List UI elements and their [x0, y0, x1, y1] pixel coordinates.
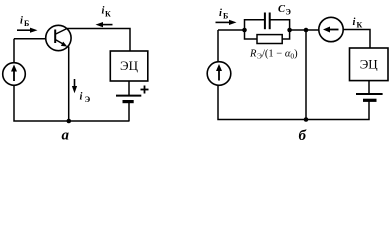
node: right node dot (circuit b) — [287, 28, 292, 33]
wire: left rail and bottom wire (circuit b) — [218, 30, 369, 120]
label i_E with arrow (circuit a) — [72, 79, 91, 104]
svg-text:Б: Б — [223, 11, 228, 20]
svg-text:а: а — [62, 128, 70, 143]
transistor VT1 — [46, 25, 71, 50]
current source I2 (circle with up arrow) — [207, 62, 231, 86]
svg-text:К: К — [357, 20, 363, 29]
svg-text:Б: Б — [24, 19, 29, 28]
box ETs (electronic circuit) circuit a — [110, 51, 148, 81]
svg-text:Э: Э — [286, 8, 292, 17]
node: left node dot (circuit b) — [242, 28, 247, 33]
label i_B with arrow (circuit a) — [17, 16, 38, 33]
label C_E — [278, 4, 292, 17]
label + (battery polarity, circuit a) — [141, 86, 149, 94]
label R_E/(1-alpha0) — [249, 49, 298, 61]
capacitor C_E plates — [265, 13, 270, 30]
wire: middle vertical (circuit b) — [305, 30, 307, 120]
svg-text:б: б — [299, 128, 307, 142]
svg-text:i: i — [20, 16, 23, 27]
svg-text:ЭЦ: ЭЦ — [360, 56, 379, 71]
wire: emitter lead down (circuit a) — [68, 47, 70, 122]
wire: left rail and bottom wire (circuit a) — [14, 39, 130, 121]
wire: collector top wire (circuit a) — [66, 29, 130, 52]
svg-text:i: i — [353, 17, 356, 28]
label i_B with arrow (circuit b) — [216, 8, 237, 25]
node: middle junction dot top — [304, 28, 309, 33]
current source i_K (circle with left arrow) — [319, 17, 343, 41]
battery GB1 (circuit a) — [116, 81, 141, 121]
wire: top wire to left node (circuit b) — [218, 29, 245, 31]
resistor R_E/(1-a0) body — [257, 35, 282, 44]
battery GB2 (circuit b) — [356, 81, 383, 101]
svg-text:R: R — [249, 49, 257, 60]
svg-text:i: i — [219, 8, 222, 19]
box ETs (electronic circuit) circuit b — [350, 48, 389, 81]
wire: capacitor branch (circuit b) — [245, 20, 290, 30]
svg-text:К: К — [105, 9, 111, 18]
current source I1 (circle with up arrow) — [3, 63, 26, 86]
wire: resistor branch (circuit b) — [245, 30, 290, 39]
wire: node to current source i_K (circuit b) — [290, 29, 319, 31]
svg-text:i: i — [80, 92, 83, 103]
wire: base lead (circuit a) — [14, 38, 47, 40]
svg-text:Э: Э — [85, 94, 91, 104]
node: emitter-bottom junction dot — [67, 119, 72, 124]
svg-text:ЭЦ: ЭЦ — [120, 58, 139, 73]
node: middle junction dot bottom — [304, 117, 309, 122]
label i_K (circuit b) — [353, 17, 363, 29]
wire: current source to box (circuit b) — [343, 30, 370, 49]
label i_K with arrow (circuit a) — [96, 6, 113, 28]
